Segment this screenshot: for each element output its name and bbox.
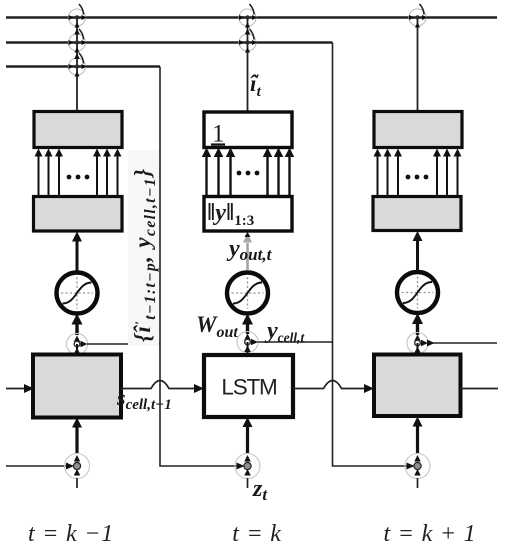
- wire bus line 2: [6, 41, 333, 43]
- wire fan-in arrows t=k: [202, 148, 295, 197]
- node label W_out: [196, 312, 238, 341]
- wire bus line 3: [6, 65, 160, 67]
- box hidden layer t=k+1: [373, 197, 461, 231]
- wire riser from output block t=k+1 up through buses: [417, 18, 419, 113]
- node bus1 x t=k+1: [409, 4, 428, 28]
- node input junction t=k: [235, 454, 260, 479]
- op-amp activation sigmoid t=k-1: [57, 273, 98, 314]
- wire input stub below t=k+1: [417, 478, 419, 488]
- wire y_cell,t to feedback wire: [258, 341, 333, 343]
- box output layer top t=k-1: [34, 112, 122, 148]
- wire input stub below t=k-1: [76, 478, 78, 488]
- wire arrow z-junction to LSTM t=k+1: [413, 417, 423, 454]
- node cell-output junction t=k-1: [67, 334, 88, 355]
- wire fan-in arrows t=k-1: [35, 149, 122, 197]
- node cell-output junction t=k+1: [407, 333, 428, 354]
- node label feedback vector (rotated): [128, 150, 159, 346]
- node label z_t: [252, 476, 268, 504]
- box hidden layer t=k-1: [34, 197, 123, 232]
- wire arrow activation to hidden t=k-1: [72, 232, 82, 273]
- wire arrow gate to activation t=k+1: [412, 313, 423, 335]
- node input junction t=k-1: [65, 454, 90, 479]
- wire s_cell,t+1 out of LSTM t=k+1: [461, 388, 499, 390]
- node bus2 x t=k-1: [69, 29, 88, 53]
- svg-text:t = k −1: t = k −1: [28, 521, 114, 547]
- wire input arrow into LSTM t=k-1: [6, 384, 34, 393]
- wire s_cell,t-1 from t=k-1 LSTM to t=k LSTM with hop: [121, 381, 204, 394]
- wire vertical feedback from bus 2 down to bottom bus (t=k+1 input): [333, 43, 414, 467]
- box LSTM cell t=k+1: [374, 355, 461, 417]
- wire riser from output block t=k-1 up through buses: [76, 18, 78, 113]
- node ellipsis t=k: [237, 171, 260, 176]
- node bus2 x t=k: [239, 29, 258, 53]
- wire fan-in arrows t=k+1: [374, 149, 462, 197]
- wire LSTM top to junction t=k: [247, 342, 249, 355]
- wire arrow gate to activation t=k: [242, 314, 253, 335]
- node label y_cell,t: [264, 318, 306, 345]
- node label y_out,t: [226, 236, 273, 264]
- svg-text:t = k + 1: t = k + 1: [384, 521, 477, 547]
- wire LSTM top to junction t=k-1: [76, 344, 78, 354]
- wire arrow z-junction to LSTM t=k: [243, 417, 253, 453]
- node label s_cell,t-1: [116, 385, 172, 413]
- svg-text:t = k: t = k: [232, 521, 282, 547]
- wire y_cell,t+1 going right: [427, 340, 497, 347]
- box prediction layer (1) t=k: [204, 112, 292, 148]
- wire gray arrow y_out into norm box: [243, 232, 252, 270]
- node label i-hat prime t: [250, 71, 262, 100]
- wire arrow gate to activation t=k-1: [72, 314, 83, 336]
- wire arrow activation to hidden t=k+1: [413, 231, 423, 272]
- node bus3 x t=k-1: [69, 53, 88, 77]
- node label ||y||1:3: [207, 200, 254, 229]
- wire LSTM top to junction t=k+1: [417, 343, 419, 354]
- svg-text:LSTM: LSTM: [221, 375, 276, 400]
- node ellipsis t=k-1: [67, 175, 90, 180]
- node ellipsis t=k+1: [406, 175, 429, 180]
- wire riser arrowhead t=k: [245, 29, 251, 35]
- wire y_cell,t-1 to feedback wire: [87, 343, 160, 345]
- wire s_cell,t from t=k LSTM to t=k+1 LSTM with hop: [293, 381, 374, 394]
- node input junction t=k+1: [405, 454, 430, 479]
- node bus1 x t=k: [239, 4, 258, 28]
- op-amp activation sigmoid t=k: [227, 273, 268, 314]
- wire riser from output block t=k up through buses: [247, 18, 249, 113]
- wire vertical feedback from bus 3 down to bottom bus (t=k input): [160, 67, 243, 467]
- node cell-output junction t=k: [237, 332, 258, 353]
- wire bottom bus into t=k-1 column: [6, 465, 72, 467]
- wire arrow z-junction to LSTM t=k-1: [72, 418, 82, 454]
- op-amp activation sigmoid t=k+1: [397, 272, 438, 313]
- node bus1 x t=k-1: [69, 4, 88, 28]
- box LSTM cell t=k: [204, 355, 293, 417]
- wire z_t stub below t=k: [247, 478, 249, 488]
- node label 1 underlined: [211, 121, 225, 148]
- wire bus line 1 (top recirculation): [6, 16, 497, 18]
- box LSTM cell t=k-1: [33, 355, 121, 418]
- box norm layer ||y||1:3: [204, 197, 292, 232]
- box output layer top t=k+1: [374, 112, 462, 148]
- wire riser arrowheads t=k-1: [74, 29, 80, 60]
